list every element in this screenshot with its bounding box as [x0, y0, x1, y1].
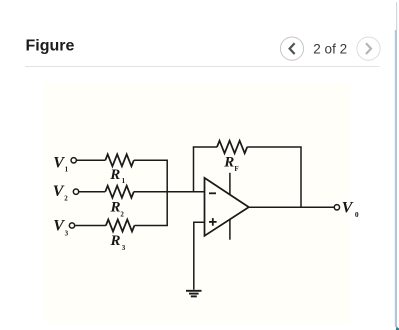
- wire V1 terminal to R1: [77, 159, 106, 161]
- node V1 input terminal: [71, 158, 76, 163]
- svg-text:0: 0: [355, 210, 359, 219]
- svg-text:V: V: [53, 154, 65, 171]
- node V2 input terminal: [73, 189, 78, 194]
- resistor R2: [105, 186, 134, 198]
- label V0: [342, 200, 359, 219]
- resistor R3: [106, 220, 134, 232]
- node V3 input terminal: [69, 223, 74, 228]
- svg-text:Figure: Figure: [26, 37, 75, 54]
- label R2: [110, 199, 125, 218]
- svg-text:R: R: [109, 167, 120, 183]
- op-amp non-inverting input plus sign: [209, 218, 217, 226]
- figure scan background: [44, 83, 350, 323]
- svg-text:1: 1: [65, 165, 69, 173]
- scroll corner mark: [396, 327, 399, 330]
- node V0 output terminal: [334, 205, 339, 210]
- header title "Figure": [26, 37, 75, 54]
- ground: [186, 291, 202, 297]
- svg-text:R: R: [110, 199, 121, 215]
- svg-text:F: F: [234, 165, 238, 173]
- svg-text:2: 2: [120, 211, 124, 219]
- svg-text:R: R: [223, 155, 234, 171]
- scrollbar track: [396, 2, 397, 30]
- wire R1 to bus corner: [134, 160, 167, 191]
- resistor RF: [217, 141, 247, 154]
- svg-text:2: 2: [64, 194, 68, 202]
- svg-text:V: V: [342, 200, 354, 217]
- label V3: [53, 218, 68, 238]
- wire op-amp output to terminal: [249, 206, 334, 208]
- header separator line: [25, 66, 380, 68]
- next page button: [357, 37, 380, 60]
- op-amp negative supply rail: [229, 219, 231, 240]
- prev page button: [280, 37, 303, 60]
- wire feedback tap vertical: [193, 147, 195, 192]
- svg-text:R: R: [110, 233, 121, 249]
- wire R2 to op-amp inverting input: [134, 191, 205, 193]
- wire feedback top right segment and drop to output: [247, 147, 301, 207]
- wire R3 to bus corner: [134, 192, 167, 226]
- label V1: [53, 154, 68, 173]
- label V2: [53, 183, 68, 203]
- scrollbar thumb: [395, 30, 397, 327]
- label R1: [109, 167, 125, 185]
- wire feedback top left segment: [193, 146, 217, 148]
- label RF: [223, 155, 238, 173]
- svg-text:V: V: [53, 183, 65, 200]
- wire V2 terminal to R2: [79, 191, 105, 193]
- svg-text:3: 3: [65, 229, 69, 237]
- wire V3 terminal to R3: [75, 225, 106, 227]
- op-amp inverting input minus sign: [209, 192, 216, 194]
- svg-text:2 of 2: 2 of 2: [313, 42, 347, 57]
- resistor R1: [105, 154, 134, 166]
- page indicator "2 of 2": [313, 42, 347, 57]
- op-amp U1 triangle: [205, 178, 249, 236]
- svg-text:3: 3: [122, 244, 126, 252]
- op-amp positive supply rail: [229, 173, 231, 195]
- label R3: [110, 233, 126, 252]
- svg-text:V: V: [53, 218, 65, 235]
- svg-text:1: 1: [122, 177, 126, 185]
- wire op-amp plus input to ground drop: [194, 222, 205, 290]
